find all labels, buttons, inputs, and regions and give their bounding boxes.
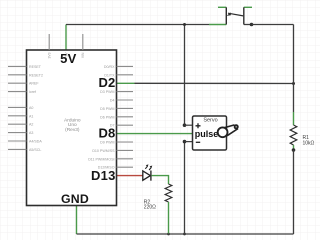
resistor R2 zigzag [165, 184, 172, 202]
node wire-joint dot below R1 [292, 148, 296, 152]
wire servo + lead [185, 124, 193, 126]
wire green above R1 [293, 112, 295, 125]
wire right rail upper (switch to D2 junction) [293, 25, 295, 84]
node D2/rail junction dot [292, 82, 295, 85]
wire green below R1 [293, 145, 295, 150]
svg-text:GND: GND [61, 192, 89, 206]
wire from dot to right rail [252, 24, 294, 26]
pin stub D3 [117, 91, 134, 93]
pushbutton actuator bar [228, 13, 243, 16]
pin stub A2 [8, 123, 27, 125]
svg-text:A1: A1 [29, 114, 33, 118]
svg-text:A5/SCL: A5/SCL [29, 148, 41, 152]
svg-text:D3 PWM: D3 PWM [100, 90, 114, 94]
svg-text:ioref: ioref [29, 90, 36, 94]
pin stub VIN (top) [82, 34, 84, 50]
pin stub RESET [8, 65, 27, 67]
svg-text:VIN: VIN [81, 52, 85, 58]
node servo-minus/ground rail T dot [183, 233, 186, 236]
svg-text:D9 PWM: D9 PWM [100, 141, 114, 145]
pin stub AREF [8, 82, 27, 84]
wire right rail lower to bottom [293, 150, 295, 234]
pin stub ioref [8, 91, 27, 93]
pin stub D10 [117, 149, 134, 151]
svg-text:D10 PWM/SS: D10 PWM/SS [92, 149, 115, 153]
svg-text:D13: D13 [91, 168, 115, 183]
pin stub D6 [117, 116, 134, 118]
svg-text:A2: A2 [29, 123, 33, 127]
wire D13 pin to LED (red) [117, 175, 143, 177]
pin stub A4 [8, 140, 27, 142]
pin stub D7 [117, 124, 134, 126]
pin stub D4 [117, 99, 134, 101]
svg-text:A3: A3 [29, 131, 33, 135]
svg-text:(Rev3): (Rev3) [65, 127, 80, 133]
wire 5V branch down to servo + [184, 25, 186, 126]
pin stub D9 [117, 141, 134, 143]
resistor R1 zigzag [290, 125, 297, 145]
pin stub RESET2 [8, 74, 27, 76]
pin stub A5 [8, 148, 27, 150]
Arduino U1 body [27, 50, 117, 206]
wire LED cathode to R2 corner (green) [152, 176, 169, 184]
wire top 5V rail horizontal [66, 24, 209, 26]
pin stub A1 [8, 115, 27, 117]
wire switch right lead to dot [244, 24, 252, 26]
svg-text:A0: A0 [29, 106, 33, 110]
pushbutton terminal 2b top bar [244, 6, 252, 8]
node R2/ground rail T dot [167, 233, 170, 236]
wire below R2 to bottom (green) [168, 202, 170, 234]
svg-text:5V: 5V [60, 51, 76, 66]
pin stub A3 [8, 132, 27, 134]
pin stub 3V3 (top) [48, 34, 50, 50]
svg-text:AREF: AREF [29, 82, 39, 86]
wire switch left lead (green) [209, 24, 226, 26]
pushbutton terminal 1b top bar [218, 6, 226, 8]
pin stub D5 [117, 107, 134, 109]
svg-text:pulse: pulse [195, 129, 219, 139]
wire GND riser (green) [76, 206, 78, 235]
svg-text:D6 PWM: D6 PWM [100, 115, 114, 119]
wire D2 pin stub (green) [117, 82, 135, 84]
node servo - joint dot [183, 140, 187, 144]
svg-text:D4: D4 [110, 99, 115, 103]
servo horn icon [218, 124, 239, 137]
LED light ray arrow 2 [149, 167, 151, 170]
wire D2 to right rail [135, 82, 294, 84]
pin stub D1 [117, 74, 134, 76]
pushbutton actuator arrowhead [227, 12, 231, 16]
svg-text:3V3: 3V3 [48, 52, 52, 58]
wire D8 to servo pulse (green) [117, 133, 193, 135]
svg-text:Servo: Servo [203, 117, 217, 123]
wire servo - lead [185, 141, 193, 143]
LED cathode bar [150, 171, 152, 181]
wire right rail to R1 [293, 84, 295, 113]
LED D1 triangle [143, 171, 151, 180]
svg-text:10kΩ: 10kΩ [303, 141, 315, 147]
svg-text:RESET2: RESET2 [29, 73, 43, 77]
pin stub A0 [8, 106, 27, 108]
wire servo minus down to ground rail [184, 142, 186, 234]
svg-text:D5 PWM: D5 PWM [100, 107, 114, 111]
pushbutton S1 [218, 7, 252, 24]
LED light ray arrow 1 [145, 166, 147, 169]
pin stub D11 [117, 158, 134, 160]
servo M1 body [193, 116, 227, 150]
svg-text:A4/SDA: A4/SDA [29, 140, 42, 144]
svg-text:D2: D2 [98, 75, 115, 90]
node 5V branch T dot [183, 23, 186, 26]
svg-text:D11 PWM/MOSI: D11 PWM/MOSI [88, 157, 114, 161]
svg-text:D0/RX: D0/RX [104, 65, 115, 69]
node servo + joint dot [183, 123, 187, 127]
wire bottom ground rail [77, 233, 294, 235]
svg-text:D8: D8 [98, 126, 115, 141]
servo + mark [196, 123, 201, 128]
node wire-joint dot on top rail [250, 23, 254, 27]
svg-text:220Ω: 220Ω [144, 205, 156, 211]
wire 5V riser from 5V pin up [65, 25, 67, 51]
pushbutton right terminal post [243, 7, 245, 24]
pin stub D0 [117, 65, 134, 67]
svg-text:RESET: RESET [29, 65, 42, 69]
servo - mark [196, 141, 200, 143]
pin stub D12 [117, 166, 134, 168]
pushbutton left terminal post [225, 7, 227, 24]
